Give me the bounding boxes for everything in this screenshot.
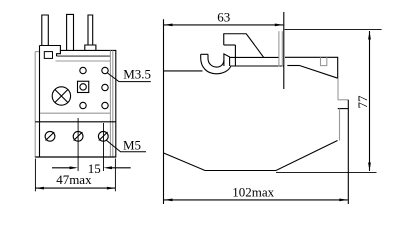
svg-text:77: 77 (355, 95, 370, 109)
svg-text:M3.5: M3.5 (123, 67, 151, 82)
svg-text:M5: M5 (123, 138, 141, 153)
svg-text:102max: 102max (232, 184, 274, 199)
svg-text:47max: 47max (56, 172, 92, 187)
svg-text:63: 63 (217, 10, 230, 25)
